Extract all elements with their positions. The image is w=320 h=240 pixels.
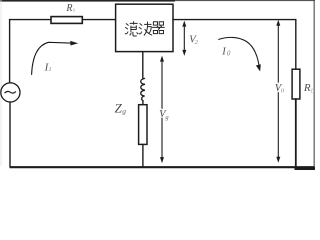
svg-text:I: I xyxy=(221,47,226,58)
ac source Vs xyxy=(1,83,20,102)
label RL xyxy=(303,82,315,95)
label Rs xyxy=(65,3,75,14)
wire bottom rail xyxy=(10,166,314,168)
impedance Zg coil part xyxy=(141,78,145,101)
wire top rail middle segment xyxy=(82,19,115,21)
wire top rail left segment xyxy=(10,19,51,21)
label I0 xyxy=(221,47,231,58)
impedance Zg box xyxy=(139,105,147,145)
wire filter box to Zg xyxy=(142,52,144,79)
label I1 xyxy=(44,62,52,73)
wire left column upper xyxy=(9,20,11,83)
svg-text:R: R xyxy=(65,3,72,14)
label 波 xyxy=(139,22,152,35)
label V0 xyxy=(274,83,285,95)
label V2 xyxy=(189,35,199,46)
label Vg xyxy=(158,109,169,121)
svg-text:L: L xyxy=(310,88,315,95)
voltage arrow Vg xyxy=(161,58,163,160)
svg-text:0: 0 xyxy=(227,50,231,58)
current arrow I1 xyxy=(32,42,71,74)
svg-text:g: g xyxy=(122,107,126,116)
wire Zg box to bottom rail xyxy=(142,144,144,166)
wire coil to Zg box xyxy=(142,101,144,105)
resistor RL xyxy=(292,69,300,99)
wire right column lower xyxy=(295,99,297,167)
label 滤 xyxy=(125,22,138,36)
wire left column lower xyxy=(9,102,11,167)
voltage arrow V0 xyxy=(277,22,279,160)
svg-text:1: 1 xyxy=(48,66,51,73)
wire right column upper xyxy=(295,20,297,70)
current arrow I0 xyxy=(219,37,259,66)
wire top rail right segment xyxy=(173,19,296,21)
resistor Rs xyxy=(51,17,82,24)
label 器 xyxy=(152,22,164,34)
label Zg xyxy=(115,100,127,115)
filter box U1 (滤波器) xyxy=(116,4,173,51)
voltage arrow V2 xyxy=(183,23,185,53)
